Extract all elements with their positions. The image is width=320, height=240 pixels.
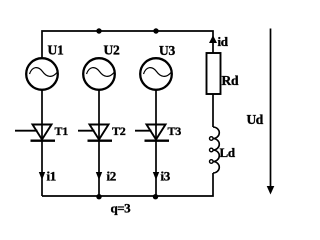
svg-text:q=3: q=3: [111, 201, 132, 216]
wire: top bus from U1 to load branch corner: [42, 31, 213, 58]
wire: U1 to T1 through bottom bus: [41, 90, 43, 196]
arrow Ud (voltage direction): [267, 29, 275, 195]
svg-text:Ld: Ld: [220, 145, 236, 160]
arrow i1: [39, 172, 45, 180]
arrow id: [209, 35, 217, 43]
svg-text:id: id: [218, 34, 229, 49]
arrow i2: [96, 172, 102, 180]
wire: resistor to inductor: [212, 94, 214, 127]
wire: U2 to T2 through bottom bus: [98, 90, 100, 196]
node: junction dot U2 on top bus: [96, 28, 101, 33]
svg-text:U3: U3: [159, 43, 175, 58]
ac source U1: [26, 58, 58, 90]
inductor Ld: [210, 127, 220, 173]
svg-text:i2: i2: [107, 169, 117, 184]
svg-text:T3: T3: [168, 124, 182, 138]
svg-text:Ud: Ud: [247, 112, 264, 127]
svg-text:i3: i3: [161, 169, 171, 184]
ac source U3: [140, 58, 172, 90]
node: junction dot i3 on bottom bus: [153, 194, 158, 199]
node: junction dot i2 on bottom bus: [96, 194, 101, 199]
svg-text:T1: T1: [55, 124, 69, 138]
thyristor T1: [15, 125, 55, 141]
thyristor T2: [78, 125, 112, 141]
svg-text:U2: U2: [104, 43, 120, 58]
ac source U2: [83, 58, 115, 90]
svg-text:U1: U1: [48, 43, 64, 58]
arrow i3: [153, 172, 159, 180]
node: junction dot U3 on top bus: [153, 28, 158, 33]
thyristor T3: [135, 125, 169, 141]
svg-text:T2: T2: [112, 124, 126, 138]
wire: bottom bus: [42, 173, 213, 196]
resistor Rd: [207, 53, 221, 94]
svg-text:i1: i1: [47, 169, 57, 184]
svg-text:Rd: Rd: [222, 73, 239, 88]
wire: U3 to T3 through bottom bus: [155, 90, 157, 196]
